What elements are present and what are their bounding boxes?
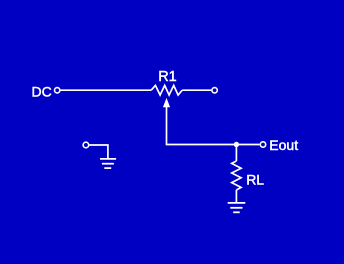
wire from DC terminal to R1 [61, 89, 152, 91]
wire from junction down to RL [235, 145, 237, 162]
svg-text:RL: RL [246, 172, 264, 188]
svg-text:DC: DC [32, 83, 52, 99]
ground (left) [100, 159, 116, 168]
resistor RL (vertical zigzag) [232, 161, 241, 190]
terminal (open circle) left ground connection [83, 142, 89, 148]
terminal (open circle) at DC input [55, 88, 60, 93]
terminal (open circle) Eout [260, 142, 265, 147]
terminal (open circle) right end of R1 [212, 88, 217, 93]
wiper arrow of R1 [163, 98, 170, 145]
wire from wiper corner to Eout terminal [166, 144, 260, 146]
svg-text:Eout: Eout [269, 137, 298, 153]
ground (below RL) [228, 203, 246, 212]
svg-text:R1: R1 [158, 69, 177, 85]
wire from left terminal to ground [89, 145, 108, 158]
resistor R1 (zigzag) [151, 85, 182, 95]
wire from R1 to right terminal [182, 89, 211, 91]
wire from RL to ground [235, 190, 237, 203]
junction node dot [234, 142, 239, 147]
